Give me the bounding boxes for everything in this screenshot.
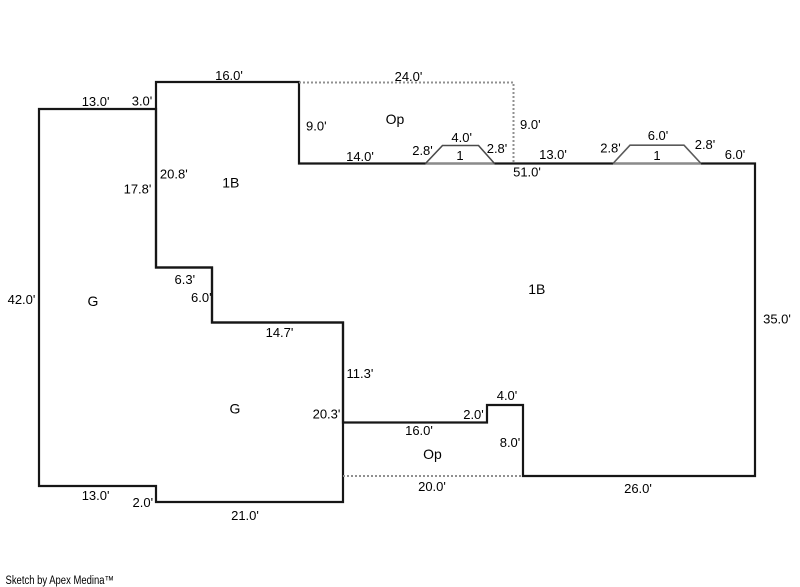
svg-text:G: G <box>88 293 99 309</box>
svg-text:2.0': 2.0' <box>463 407 484 422</box>
svg-text:4.0': 4.0' <box>497 388 518 403</box>
stair marker 1 trapezoid (left) <box>426 146 495 164</box>
Op top porch dotted boundary (24.0' x 9.0') <box>299 83 514 164</box>
svg-text:2.0': 2.0' <box>133 495 154 510</box>
svg-text:1B: 1B <box>222 175 239 191</box>
svg-text:Sketch by Apex Medina™: Sketch by Apex Medina™ <box>6 575 115 587</box>
svg-text:2.8': 2.8' <box>600 141 621 156</box>
Op bottom porch dotted boundary (20.0') <box>343 475 523 477</box>
svg-text:9.0': 9.0' <box>306 119 327 134</box>
svg-text:14.7': 14.7' <box>266 325 294 340</box>
svg-text:6.0': 6.0' <box>725 147 746 162</box>
svg-text:1B: 1B <box>528 281 545 297</box>
svg-text:6.0': 6.0' <box>191 290 212 305</box>
svg-text:8.0': 8.0' <box>500 435 521 450</box>
svg-text:1: 1 <box>653 148 660 163</box>
stair marker 1 trapezoid (right) <box>613 145 701 163</box>
svg-text:13.0': 13.0' <box>82 94 110 109</box>
G garage outline (solid walls) <box>39 109 343 502</box>
svg-text:Op: Op <box>423 446 442 462</box>
svg-text:16.0': 16.0' <box>215 68 243 83</box>
svg-text:1: 1 <box>456 148 463 163</box>
svg-text:26.0': 26.0' <box>624 481 652 496</box>
1B floor outline (solid walls) <box>156 82 755 476</box>
svg-text:20.8': 20.8' <box>160 166 188 181</box>
svg-text:14.0': 14.0' <box>346 149 374 164</box>
svg-text:3.0': 3.0' <box>132 94 153 109</box>
svg-text:13.0': 13.0' <box>82 488 110 503</box>
svg-text:35.0': 35.0' <box>763 312 791 327</box>
svg-text:17.8': 17.8' <box>124 181 152 196</box>
svg-text:42.0': 42.0' <box>8 292 36 307</box>
svg-text:11.3': 11.3' <box>347 366 374 381</box>
svg-text:6.3': 6.3' <box>175 272 196 287</box>
svg-text:6.0': 6.0' <box>648 128 669 143</box>
svg-text:13.0': 13.0' <box>539 147 567 162</box>
svg-text:2.8': 2.8' <box>695 137 716 152</box>
svg-text:51.0': 51.0' <box>513 165 541 180</box>
svg-text:2.8': 2.8' <box>487 141 508 156</box>
svg-text:2.8': 2.8' <box>412 143 433 158</box>
svg-text:24.0': 24.0' <box>395 69 423 84</box>
svg-text:G: G <box>230 401 241 417</box>
stair marker 1 baseline gray (left) <box>426 163 495 165</box>
stair marker 1 baseline gray (right) <box>613 163 701 165</box>
svg-text:20.3': 20.3' <box>313 407 341 422</box>
svg-text:9.0': 9.0' <box>520 117 541 132</box>
svg-text:20.0': 20.0' <box>418 479 446 494</box>
svg-text:Op: Op <box>386 111 405 127</box>
svg-text:21.0': 21.0' <box>231 508 259 523</box>
svg-text:16.0': 16.0' <box>405 423 433 438</box>
svg-text:4.0': 4.0' <box>451 130 472 145</box>
